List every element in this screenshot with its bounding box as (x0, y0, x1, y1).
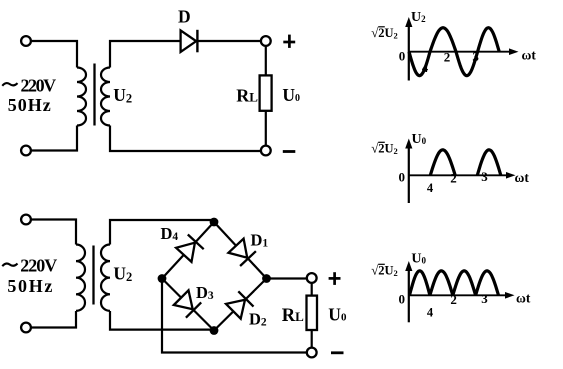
terminal - output (circuit 1) (261, 146, 271, 156)
terminal + output (circuit 2) (307, 273, 317, 283)
svg-text:4: 4 (422, 61, 429, 75)
svg-text:50Hz: 50Hz (7, 276, 52, 296)
svg-text:2U2: 2U2 (378, 142, 398, 157)
svg-text:2U2: 2U2 (378, 264, 398, 279)
graph2 label sqrt(2)U2 (371, 141, 397, 157)
svg-text:U0: U0 (412, 132, 427, 147)
graph1 y-axis with arrow (405, 17, 412, 81)
svg-text:220V: 220V (20, 256, 57, 276)
svg-text:D2: D2 (249, 310, 267, 329)
wire: top-left terminal to primary top (circuit 1) (31, 41, 77, 68)
terminal bottom-left (circuit 1) (21, 146, 31, 156)
wire: resistor RL to - terminal (circuit 2) (311, 330, 313, 348)
wire: bridge arm left-bottom (D3 arm) (162, 279, 214, 331)
wire: bridge arm left-top (D4 arm) (162, 222, 214, 279)
wire: bridge arm bottom-right (D2 arm) (214, 279, 267, 331)
svg-text:2: 2 (444, 50, 451, 65)
svg-text:0: 0 (399, 292, 406, 307)
junction dot: bridge top node (210, 218, 219, 227)
wire: secondary top to diode D anode (110, 41, 180, 68)
graph1 label sqrt(2)U2 (371, 25, 397, 41)
graph3 label sqrt(2)U2 (371, 263, 397, 279)
svg-text:ωt: ωt (515, 170, 530, 185)
diode D4 (176, 235, 204, 262)
svg-text:D3: D3 (196, 283, 214, 302)
graph1 curve: U2 sine wave (409, 28, 499, 76)
minus sign (circuit 1) (283, 150, 296, 153)
svg-text:2: 2 (450, 292, 457, 307)
label ~220V 50Hz (circuit 1) (2, 76, 56, 116)
svg-text:2U2: 2U2 (378, 26, 398, 41)
transformer secondary winding U2 (circuit 2) (101, 245, 110, 311)
graph2 y-axis with arrow (405, 139, 412, 204)
svg-text:3: 3 (481, 169, 488, 184)
wire: + terminal to resistor RL (circuit 2) (311, 282, 313, 295)
graph3 y-axis with arrow (405, 261, 412, 322)
graph3 curve: U0 full-wave rectified (410, 271, 499, 296)
graph1 x-axis with arrow (409, 48, 519, 55)
diode D2 (226, 291, 254, 318)
svg-text:RL: RL (282, 306, 304, 326)
svg-text:220V: 220V (21, 76, 57, 96)
label ~220V 50Hz (circuit 2) (2, 256, 57, 296)
transformer primary winding (circuit 2) (76, 245, 85, 311)
resistor RL (circuit 1) (260, 75, 272, 110)
terminal bottom-left (circuit 2) (21, 323, 31, 333)
svg-text:U0: U0 (328, 305, 347, 325)
svg-text:D: D (178, 7, 191, 27)
svg-text:U0: U0 (411, 252, 426, 267)
wire: resistor RL to - terminal (circuit 1) (265, 111, 267, 146)
svg-text:ωt: ωt (522, 48, 537, 63)
junction dot: bridge right node (262, 274, 271, 283)
graph3 x-axis with arrow (409, 292, 515, 299)
graph2 curve: U0 half-wave rectified (430, 150, 501, 176)
svg-text:3: 3 (472, 49, 479, 64)
wire: secondary bottom to bridge bottom node (110, 311, 214, 330)
transformer core (circuit 1) (93, 64, 95, 126)
diode D1 (228, 239, 256, 266)
svg-text:ωt: ωt (516, 291, 531, 306)
svg-text:D1: D1 (251, 231, 269, 250)
wire: secondary bottom to - terminal (circuit 1) (110, 126, 261, 152)
svg-text:U0: U0 (282, 85, 300, 105)
wire: diode D cathode to + terminal (197, 40, 261, 42)
svg-text:U2: U2 (113, 264, 132, 284)
diode D (181, 30, 198, 53)
svg-text:50Hz: 50Hz (8, 95, 51, 115)
wire: primary bottom to bottom-left terminal (circuit 1) (31, 126, 77, 151)
terminal top-left (circuit 2) (21, 215, 31, 225)
wire: + terminal down to resistor RL (circuit 1) (265, 45, 267, 75)
wire: top-left terminal to primary top (circuit 2) (31, 220, 76, 245)
svg-text:4: 4 (427, 306, 434, 320)
wire: secondary top to bridge top node (110, 220, 214, 245)
wire: bridge left node down and right to - terminal (circuit 2) (162, 279, 307, 353)
diode D3 (174, 290, 201, 317)
transformer primary winding (circuit 1) (77, 68, 86, 126)
svg-text:RL: RL (236, 85, 258, 105)
resistor RL (circuit 2) (307, 296, 318, 330)
svg-text:U2: U2 (113, 85, 132, 105)
svg-text:0: 0 (399, 49, 406, 64)
junction dot: bridge left node (158, 274, 167, 283)
junction dot: bridge bottom node (210, 326, 219, 335)
minus sign (circuit 2) (331, 351, 344, 354)
svg-text:D4: D4 (161, 224, 179, 243)
wire: primary bottom to bottom-left terminal (circuit 2) (31, 311, 76, 328)
terminal - output (circuit 2) (307, 348, 317, 358)
svg-text:U2: U2 (411, 10, 426, 25)
svg-text:2: 2 (450, 171, 457, 186)
plus sign (circuit 2) (329, 272, 341, 285)
svg-text:0: 0 (399, 170, 406, 185)
terminal + output (circuit 1) (261, 36, 271, 46)
transformer core (circuit 2) (92, 246, 94, 305)
plus sign (circuit 1) (283, 35, 295, 48)
wire: bridge arm top-right (D1 arm) (214, 222, 267, 279)
terminal top-left (circuit 1) (21, 36, 31, 46)
transformer secondary winding U2 (circuit 1) (101, 68, 110, 126)
svg-text:4: 4 (427, 181, 434, 195)
svg-text:3: 3 (481, 291, 488, 306)
wire: bridge right node to + terminal (circuit 2) (267, 277, 308, 279)
graph2 x-axis with arrow (409, 172, 516, 179)
